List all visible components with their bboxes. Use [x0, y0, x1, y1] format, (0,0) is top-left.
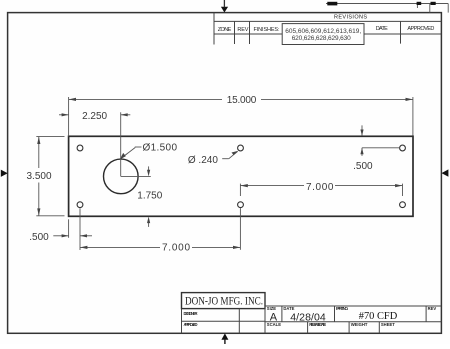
svg-text:2.250: 2.250 — [82, 111, 107, 122]
dimension .500 right — [362, 125, 399, 155]
svg-text:3.500: 3.500 — [26, 171, 51, 182]
svg-text:REVISIONS: REVISIONS — [334, 15, 367, 21]
leader diameter 1.500 — [122, 147, 142, 158]
svg-text:REV: REV — [428, 306, 437, 311]
dimension 7.000 middle — [240, 184, 402, 196]
center marker top arrow — [221, 7, 228, 13]
dimension .500 bottom left — [53, 219, 92, 238]
svg-text:DESIGNER: DESIGNER — [184, 311, 198, 316]
center marker left arrow — [1, 170, 8, 177]
dimension 1.750 lower outside arrow — [148, 222, 150, 227]
svg-text:SIZE: SIZE — [267, 306, 277, 311]
title block right section lines — [265, 306, 441, 333]
plate outline — [69, 136, 413, 216]
svg-text:15.000: 15.000 — [227, 95, 257, 106]
svg-text:.500: .500 — [29, 232, 49, 243]
hole bottom-right — [400, 202, 406, 208]
svg-text:605,606,609,612,613,619,: 605,606,609,612,613,619, — [285, 28, 361, 35]
center marker right arrow — [442, 169, 449, 176]
svg-text:Ø1.500: Ø1.500 — [143, 143, 178, 154]
leader diameter .240 — [222, 152, 237, 159]
hole bottom-left — [77, 202, 83, 208]
svg-text:DATE: DATE — [283, 306, 294, 311]
title block left rows — [182, 309, 266, 334]
svg-text:SHEET: SHEET — [381, 322, 395, 327]
svg-text:1.750: 1.750 — [137, 191, 162, 202]
svg-text:Ø .240: Ø .240 — [188, 155, 218, 166]
title block company box — [182, 293, 266, 309]
dimension 2.250 — [59, 112, 130, 176]
dimension 3.500 — [36, 137, 64, 216]
svg-text:.500: .500 — [353, 161, 373, 172]
svg-text:APPROVED: APPROVED — [407, 26, 434, 32]
svg-text:#70 CFD: #70 CFD — [359, 310, 398, 322]
hole top-left — [77, 145, 83, 151]
hole top-middle — [238, 145, 244, 151]
svg-text:WEIGHT: WEIGHT — [351, 322, 368, 327]
hole top-right — [400, 145, 406, 151]
finishes numbers box — [282, 24, 364, 45]
zone tick marks top right — [327, 2, 435, 6]
dimension 1.750 — [121, 166, 151, 176]
hole bottom-middle — [238, 202, 244, 208]
svg-text:7.000: 7.000 — [162, 242, 190, 253]
dimension 7.000 bottom — [80, 208, 240, 250]
large hole — [104, 159, 139, 194]
center marker bottom arrow — [221, 333, 228, 339]
dimension 15.000 — [69, 97, 413, 136]
svg-text:PART NO.: PART NO. — [336, 306, 349, 311]
svg-text:REV: REV — [237, 27, 248, 33]
svg-text:RELEASE DATE: RELEASE DATE — [309, 322, 326, 327]
svg-text:620,626,628,629,630: 620,626,628,629,630 — [292, 35, 351, 42]
svg-text:ZONE: ZONE — [218, 27, 232, 33]
paper edge artifact top right — [326, 4, 448, 13]
svg-text:SCALE: SCALE — [267, 322, 281, 327]
revisions table lines — [214, 13, 441, 45]
svg-text:DATE: DATE — [376, 26, 388, 32]
svg-text:FINISHES:: FINISHES: — [254, 27, 280, 33]
svg-text:APPROVED: APPROVED — [184, 322, 198, 327]
svg-text:DON-JO MFG. INC.: DON-JO MFG. INC. — [185, 293, 263, 307]
svg-text:7.000: 7.000 — [306, 182, 334, 193]
